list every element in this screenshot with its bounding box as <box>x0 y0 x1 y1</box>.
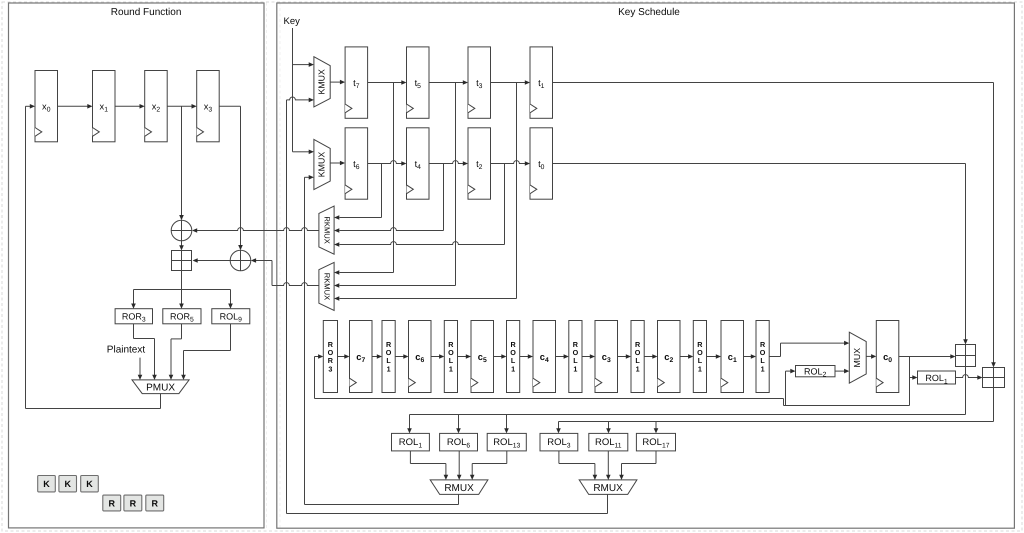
wire Plaintext to PMUX <box>138 358 143 380</box>
wire ROR5 to PMUX <box>169 324 182 380</box>
mux KMUX1 <box>314 57 330 107</box>
rotate unit ROL17 (bank) <box>636 433 675 451</box>
wire ROL3 bank to RMUX2 <box>559 451 597 480</box>
wire ROR3 to PMUX <box>134 324 157 380</box>
Plaintext label <box>107 345 146 356</box>
wire ROL1 bank to RMUX1 <box>410 451 448 480</box>
wire ROL2 to MUX input2 <box>835 369 849 374</box>
wire t5 tap to RKMUX2 input2 <box>334 83 455 288</box>
register t7 <box>345 47 368 118</box>
rotate unit ROL11 (bank) <box>589 433 628 451</box>
wire chain link 4 <box>458 354 472 359</box>
svg-text:1: 1 <box>573 364 577 373</box>
wire Key to KMUX1 input1 <box>293 62 314 67</box>
wire XOR2 to modular adder <box>193 258 231 263</box>
mux RMUX1 <box>430 480 488 495</box>
wire chain link 8 <box>582 354 595 359</box>
wire chain link 11 <box>680 354 693 359</box>
wire x3 output to XOR2 top <box>219 106 243 250</box>
wire t4 to t2 <box>429 161 468 166</box>
wire RMUX2 feedback to KMUX1 input2 <box>287 97 314 513</box>
svg-text:RKMUX: RKMUX <box>323 273 332 300</box>
svg-text:3: 3 <box>328 364 332 373</box>
wire t0 output to adder1 <box>553 164 968 345</box>
modular adder T2 (key schedule) <box>983 368 1005 388</box>
rotate unit ROL9 (round) <box>212 309 250 324</box>
rotate unit ROR5 (round) <box>163 309 201 324</box>
register x2 <box>145 71 168 142</box>
wire t3 to t1 <box>491 80 531 85</box>
svg-text:KMUX: KMUX <box>316 69 326 95</box>
svg-text:K: K <box>43 479 50 489</box>
register c5 <box>471 321 494 393</box>
register c1 <box>721 321 744 393</box>
wire chain link 5 <box>494 354 507 359</box>
wire t7 tap to RKMUX2 input1 <box>334 83 393 275</box>
svg-text:1: 1 <box>761 364 765 373</box>
wire RMUX1 output feedback <box>305 494 459 504</box>
register t1 <box>530 47 553 118</box>
svg-text:Plaintext: Plaintext <box>107 345 146 356</box>
rotate unit ROR3 (round) <box>115 309 152 324</box>
rotate unit ROL3 (bank) <box>540 433 578 451</box>
wire RMUX1 feedback to KMUX2 input2 <box>305 175 314 505</box>
svg-text:1: 1 <box>449 364 453 373</box>
register c3 <box>595 321 618 393</box>
wire ROR3 to c7 <box>338 354 350 359</box>
modular adder (round function) <box>172 251 192 271</box>
register c6 <box>409 321 432 393</box>
wire ROL13 bank to RMUX1 <box>470 451 507 480</box>
svg-text:RMUX: RMUX <box>444 483 474 494</box>
svg-text:MUX: MUX <box>852 348 862 368</box>
wire chain link 3 <box>431 354 444 359</box>
svg-text:1: 1 <box>698 364 702 373</box>
mux RKMUX2 <box>319 262 334 310</box>
XOR gate XOR1 <box>171 220 192 241</box>
wire chain link 2 <box>395 354 408 359</box>
wire t2 to t0 <box>491 161 531 166</box>
register ROL1 (chain #5) <box>631 321 644 393</box>
wire x0 to x1 <box>58 104 93 109</box>
wire c0 feedback to ROL1 rotate <box>910 375 918 380</box>
wire Key input <box>292 28 294 152</box>
Round Function panel frame <box>9 3 265 528</box>
register ROL1 (chain #7) <box>756 321 769 393</box>
Key Schedule panel frame <box>277 3 1015 528</box>
svg-text:1: 1 <box>636 364 640 373</box>
wire chain link 9 <box>618 354 632 359</box>
svg-text:Round Function: Round Function <box>111 7 182 18</box>
register t6 <box>345 128 368 199</box>
register ROL1 (chain #1) <box>382 321 395 393</box>
modular adder T1 (key schedule) <box>956 345 976 367</box>
wire chain link 6 <box>520 354 533 359</box>
svg-text:1: 1 <box>387 364 391 373</box>
svg-text:Key Schedule: Key Schedule <box>618 7 680 18</box>
register ROL1 (chain #4) <box>569 321 582 393</box>
wire x1 to x2 <box>115 104 145 109</box>
wire KMUX2 to t6 <box>330 161 345 166</box>
wire t1 output to adder2 <box>553 83 996 368</box>
wire MUX to c0 <box>866 354 876 359</box>
mux RMUX2 <box>579 480 637 495</box>
register c4 <box>533 321 556 393</box>
mux MUX (constant select) <box>849 332 866 383</box>
rotate unit ROL1 (bank) <box>392 433 430 451</box>
wire t5 to t3 <box>429 80 468 85</box>
register t0 <box>530 128 553 199</box>
wire ROL9 to PMUX <box>181 324 230 380</box>
register t2 <box>468 128 491 199</box>
Key Schedule panel title <box>618 7 680 18</box>
svg-text:K: K <box>86 479 93 489</box>
svg-text:R: R <box>130 498 137 508</box>
XOR gate XOR2 <box>230 250 251 271</box>
register ROL1 (chain #3) <box>507 321 520 393</box>
svg-text:KMUX: KMUX <box>316 152 326 178</box>
Round Function panel title <box>111 7 182 18</box>
wire chain link 13 <box>744 354 757 359</box>
wire chain link 10 <box>644 354 657 359</box>
register x0 <box>35 71 58 142</box>
register x1 <box>93 71 116 142</box>
rotate unit ROL13 (bank) <box>487 433 526 451</box>
svg-text:K: K <box>64 479 71 489</box>
Key label <box>284 16 301 27</box>
register t4 <box>407 128 430 199</box>
register ROR3 (chain) <box>323 321 337 393</box>
wire t7 to t5 <box>368 80 407 85</box>
register c2 <box>658 321 681 393</box>
wire chain input to ROR3 <box>315 354 324 359</box>
wire ROL6 bank to RMUX1 <box>457 451 462 480</box>
rotate unit ROL2 <box>796 366 836 379</box>
mux KMUX2 <box>314 139 330 189</box>
register c0 <box>876 321 899 393</box>
wire t6 tap to RKMUX1 input1 <box>334 164 381 220</box>
wire t2 tap to RKMUX1 input3 <box>334 164 504 247</box>
wire KMUX1 to t7 <box>330 80 345 85</box>
wire adder2 output tap line <box>556 388 993 434</box>
wire t3 tap to RKMUX2 input3 <box>334 83 516 301</box>
mux RKMUX1 <box>319 206 334 254</box>
wire adder output to rotate units <box>131 271 233 309</box>
wire c0 feedback down <box>909 357 911 406</box>
wire RMUX2 output feedback <box>287 494 608 513</box>
svg-text:PMUX: PMUX <box>146 382 175 393</box>
wire feedback to ROL2 input <box>786 369 796 406</box>
wire c0 output to adder1 <box>899 354 956 359</box>
legend boxes K K K <box>38 476 99 492</box>
register c7 <box>350 321 373 393</box>
svg-text:R: R <box>152 498 159 508</box>
svg-text:RMUX: RMUX <box>593 483 623 494</box>
svg-text:R: R <box>109 498 116 508</box>
register x3 <box>197 71 220 142</box>
wire chain link 12 <box>707 354 722 359</box>
wire ROL17 bank to RMUX2 <box>619 451 656 480</box>
wire chain link 1 <box>372 354 382 359</box>
wire RKMUX1 round key to XOR1 <box>192 228 319 233</box>
wire RKMUX2 round key to XOR2 <box>251 258 319 285</box>
register ROL1 (chain #6) <box>693 321 706 393</box>
svg-text:Key: Key <box>284 16 301 27</box>
wire ROL11 bank to RMUX2 <box>606 451 611 480</box>
register t5 <box>407 47 430 118</box>
wire t6 to t4 <box>368 161 407 166</box>
wire ROL1 rotate to adder2 <box>956 375 983 380</box>
svg-text:RKMUX: RKMUX <box>323 216 332 243</box>
wire t4 tap to RKMUX1 input2 <box>334 164 443 233</box>
rotate unit ROL6 (bank) <box>440 433 478 451</box>
svg-text:1: 1 <box>511 364 515 373</box>
legend boxes R R R <box>103 495 164 511</box>
wire PMUX feedback to x0 input <box>26 104 161 409</box>
wire c0 feedback line <box>315 357 910 406</box>
wire Key to KMUX2 input1 <box>293 150 314 155</box>
wire x2 to x3 with tap node <box>167 104 197 109</box>
wire adder1 output tap line <box>407 367 965 434</box>
wire XOR1 to modular adder <box>179 241 184 251</box>
wire tap down to XOR1 <box>179 106 184 220</box>
wire chain link 7 <box>556 354 569 359</box>
mux PMUX <box>132 380 189 394</box>
register ROL1 (chain #2) <box>444 321 457 393</box>
rotate unit ROL1 (by c0) <box>918 371 956 385</box>
wire last ROL1 to MUX input1 <box>769 341 849 357</box>
register t3 <box>468 47 491 118</box>
